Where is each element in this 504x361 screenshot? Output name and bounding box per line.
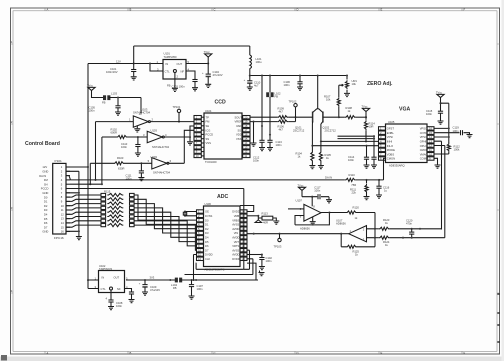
ferrite bead L103 <box>103 95 106 100</box>
U107b feedback with R125 <box>341 234 346 247</box>
svg-text:OPHI: OPHI <box>420 140 427 144</box>
U107a feedback loop <box>295 213 329 225</box>
svg-text:12: 12 <box>244 150 247 154</box>
svg-text:100n/16V: 100n/16V <box>106 70 118 74</box>
svg-text:16: 16 <box>61 230 64 234</box>
svg-text:600R: 600R <box>111 131 117 135</box>
svg-text:PCCD: PCCD <box>206 133 214 137</box>
svg-text:TVcc: TVcc <box>87 84 94 88</box>
svg-text:VREF: VREF <box>235 120 243 124</box>
svg-text:100n: 100n <box>284 83 290 87</box>
ground FPC16 <box>76 237 82 240</box>
svg-text:GND: GND <box>42 170 48 174</box>
svg-text:TAR5S050: TAR5S050 <box>164 55 177 59</box>
svg-text:SN74AHCT04: SN74AHCT04 <box>153 170 171 174</box>
OE jumper <box>185 212 197 216</box>
svg-text:SOUT: SOUT <box>235 115 243 119</box>
svg-text:12: 12 <box>198 257 201 261</box>
ferrite bead L104 <box>175 278 178 283</box>
right border dark marks <box>497 294 500 342</box>
svg-text:+: + <box>244 79 246 82</box>
svg-text:17: 17 <box>242 240 245 244</box>
svg-text:R120: R120 <box>353 206 360 210</box>
frame column ticks and letters <box>44 8 46 354</box>
wire U103b out to CCD SH <box>164 126 194 137</box>
svg-text:13: 13 <box>244 145 247 149</box>
svg-text:22: 22 <box>242 218 245 222</box>
svg-text:13: 13 <box>429 139 432 143</box>
emitter Q101 down <box>311 124 313 151</box>
svg-text:DA IN: DA IN <box>39 174 46 178</box>
svg-text:VPSO: VPSO <box>420 127 427 131</box>
resistor R124 <box>379 236 390 239</box>
svg-text:+: + <box>202 72 204 75</box>
wire VGA supply to VPSO pins <box>441 103 449 143</box>
svg-text:14: 14 <box>61 221 64 225</box>
capacitor C120 <box>411 229 413 232</box>
svg-text:5: 5 <box>61 182 63 186</box>
flag at VRBS <box>255 220 261 223</box>
U107a non-inverting input stub <box>288 208 304 210</box>
frame row ticks and numbers <box>11 43 500 45</box>
capacitor C110b <box>137 136 139 138</box>
svg-text:21: 21 <box>242 223 245 227</box>
svg-text:SS: SS <box>206 137 210 141</box>
svg-text:VGA: VGA <box>399 107 410 113</box>
ferrite bead L102 <box>269 76 271 93</box>
svg-text:10: 10 <box>429 152 432 156</box>
svg-text:13: 13 <box>61 217 64 221</box>
svg-text:75R: 75R <box>351 183 356 187</box>
connector P101 body <box>53 163 66 234</box>
resistor R115-4 <box>66 208 101 210</box>
svg-text:DVSS: DVSS <box>205 214 213 218</box>
svg-text:VAD: VAD <box>236 124 241 128</box>
svg-text:A: A <box>47 351 49 355</box>
bus wire D3 <box>134 208 196 233</box>
svg-text:D5: D5 <box>205 240 209 244</box>
svg-text:15: 15 <box>61 225 64 229</box>
svg-text:TAR5S033: TAR5S033 <box>99 267 112 271</box>
resistor R103 <box>90 162 113 164</box>
inductor L101 <box>250 55 252 69</box>
ADC supply loop top <box>241 206 254 212</box>
svg-text:19: 19 <box>242 231 245 235</box>
svg-text:100n: 100n <box>276 143 282 147</box>
svg-text:23: 23 <box>242 214 245 218</box>
svg-text:D: D <box>297 351 299 355</box>
svg-text:L103: L103 <box>111 92 117 96</box>
svg-text:FPC16: FPC16 <box>54 236 64 240</box>
U107b output to video line <box>341 233 349 235</box>
ground near op2 <box>259 271 261 273</box>
svg-text:100n: 100n <box>116 304 122 308</box>
capacitor C119 <box>434 132 460 134</box>
bus wire D4 <box>134 212 196 237</box>
resistor R115-3 <box>66 204 101 206</box>
svg-text:18: 18 <box>244 124 247 128</box>
resistor R113 network <box>247 215 258 217</box>
svg-text:C: C <box>214 8 216 12</box>
svg-text:PCCD: PCCD <box>41 187 49 191</box>
svg-text:VSS: VSS <box>236 137 242 141</box>
CCD U104 body <box>204 113 242 159</box>
svg-text:C: C <box>214 351 216 355</box>
UR1 wiper <box>339 84 344 86</box>
svg-text:100n: 100n <box>348 158 354 162</box>
power flag TVcc logic <box>88 87 95 90</box>
resistor R123 <box>379 227 390 230</box>
wire 12V vertical trunk <box>87 64 89 281</box>
connector P101 pins <box>66 166 70 168</box>
3V3 rail <box>126 279 175 281</box>
svg-text:24: 24 <box>242 210 245 214</box>
resistor R115-1 <box>66 195 101 197</box>
svg-text:18: 18 <box>242 235 245 239</box>
svg-text:SH: SH <box>44 182 48 186</box>
svg-text:TP103: TP103 <box>274 245 282 249</box>
svg-text:SS: SS <box>238 128 242 132</box>
svg-text:3: 3 <box>11 206 13 210</box>
capacitor C115 <box>438 110 443 112</box>
svg-text:CMOP: CMOP <box>420 148 428 152</box>
svg-text:15: 15 <box>242 248 245 252</box>
svg-text:B: B <box>130 351 132 355</box>
svg-text:DVDD: DVDD <box>232 210 240 214</box>
svg-text:AVDD: AVDD <box>232 253 239 257</box>
svg-text:SN74AHCT04: SN74AHCT04 <box>133 111 151 115</box>
wire VIN video line <box>247 233 341 235</box>
svg-text:15: 15 <box>429 131 432 135</box>
svg-text:100n: 100n <box>314 189 320 193</box>
svg-text:MODE: MODE <box>387 148 395 152</box>
svg-text:TVcc: TVcc <box>204 50 211 54</box>
resistor R115-8 <box>66 225 101 227</box>
svg-text:100u: 100u <box>256 60 262 64</box>
test point TP103 <box>279 234 281 239</box>
svg-text:100n: 100n <box>89 109 95 113</box>
svg-text:12V: 12V <box>116 59 121 63</box>
regulator U101 body <box>163 60 186 80</box>
U107a ground pin <box>312 217 314 221</box>
wire 12V top rail to L101 <box>134 46 250 64</box>
svg-text:FB: FB <box>167 84 171 88</box>
wire INLO line <box>312 145 378 147</box>
svg-text:OE: OE <box>205 210 209 214</box>
svg-text:12: 12 <box>61 212 64 216</box>
CCD U104 pins <box>194 116 201 119</box>
svg-text:4: 4 <box>61 178 63 182</box>
VGA U105 body <box>386 124 428 163</box>
svg-text:DVDD: DVDD <box>205 253 213 257</box>
svg-text:OPLO: OPLO <box>420 144 427 148</box>
svg-text:47u/10V: 47u/10V <box>150 288 160 292</box>
svg-text:OUT: OUT <box>177 62 183 66</box>
svg-text:FM: FM <box>44 178 49 182</box>
svg-text:D4: D4 <box>205 236 209 240</box>
svg-text:7: 7 <box>61 191 63 195</box>
resistor R109 <box>277 116 288 119</box>
svg-text:AVDD: AVDD <box>232 227 239 231</box>
svg-text:NF: NF <box>117 287 121 291</box>
svg-text:VDD: VDD <box>236 133 242 137</box>
svg-text:20: 20 <box>244 115 247 119</box>
svg-text:13: 13 <box>242 257 245 261</box>
svg-text:12: 12 <box>429 144 432 148</box>
U101 NF cap <box>186 71 195 79</box>
svg-text:TCD1320: TCD1320 <box>205 160 217 164</box>
svg-text:C103 100n: C103 100n <box>172 85 186 89</box>
svg-text:CTL: CTL <box>101 287 107 291</box>
svg-text:U106: U106 <box>205 202 212 206</box>
bus wire D7 <box>134 225 196 250</box>
wire DA IN <box>66 176 345 180</box>
test point TP101 <box>177 109 180 112</box>
svg-text:D1: D1 <box>44 200 48 204</box>
svg-text:OUT: OUT <box>114 275 120 279</box>
svg-text:D7: D7 <box>44 225 48 229</box>
svg-text:FB: FB <box>275 95 279 99</box>
resistor R105 <box>319 151 322 162</box>
svg-text:TP: TP <box>206 115 210 119</box>
svg-text:INHI: INHI <box>387 140 393 144</box>
U102 NF cap <box>125 289 132 292</box>
wire P101 pin1 to 12V trunk <box>70 166 88 168</box>
capacitor C117 <box>318 194 320 199</box>
svg-text:NF: NF <box>181 70 185 74</box>
svg-text:100n: 100n <box>197 287 203 291</box>
analog 12V rail <box>250 69 347 76</box>
svg-text:47u/10V: 47u/10V <box>213 73 223 77</box>
svg-text:TVcc: TVcc <box>361 105 368 109</box>
svg-text:R113: R113 <box>262 211 269 215</box>
svg-text:OFST: OFST <box>387 127 395 131</box>
svg-text:10: 10 <box>61 204 64 208</box>
svg-text:11: 11 <box>244 154 247 158</box>
svg-text:CMGN: CMGN <box>387 157 395 161</box>
svg-text:11: 11 <box>61 208 64 212</box>
power flag TVcc at U107a <box>298 187 305 190</box>
svg-text:U103: U103 <box>151 129 158 133</box>
bus wire D2 <box>134 204 196 229</box>
svg-text:VDBS: VDBS <box>387 152 395 156</box>
svg-text:E: E <box>381 8 383 12</box>
U101 OUT wire <box>186 63 208 65</box>
svg-text:ADC: ADC <box>217 194 228 200</box>
wire line B <box>375 237 379 239</box>
ADC U106 body <box>204 206 241 267</box>
bus wire D6 <box>134 221 196 246</box>
svg-text:15: 15 <box>244 137 247 141</box>
svg-text:INLO: INLO <box>387 144 393 148</box>
ADC DVDD left to 3V3 <box>194 255 197 281</box>
svg-text:9: 9 <box>61 200 63 204</box>
svg-text:D0: D0 <box>205 218 209 222</box>
VREF decoupling to ground <box>253 122 255 143</box>
svg-text:630R: 630R <box>118 166 124 170</box>
power flag TVcc at U101 out <box>207 57 209 64</box>
wire VDD vertical <box>269 97 271 140</box>
transistor Q102 <box>322 112 324 123</box>
svg-text:GND: GND <box>42 191 48 195</box>
svg-text:19: 19 <box>244 120 247 124</box>
svg-text:FB: FB <box>102 101 106 105</box>
svg-text:FM: FM <box>206 120 211 124</box>
svg-text:U104: U104 <box>205 109 212 113</box>
svg-text:2: 2 <box>177 75 179 79</box>
svg-text:TP101: TP101 <box>173 105 181 109</box>
aux lines into VGA <box>338 136 375 157</box>
svg-text:FB: FB <box>173 286 177 290</box>
op-amp U107a <box>304 204 321 221</box>
bus wire D5 <box>134 217 196 242</box>
svg-text:6: 6 <box>61 187 63 191</box>
capacitor C112 <box>259 139 264 141</box>
resistor R115-6 <box>66 217 101 219</box>
capacitor C110 <box>249 76 251 81</box>
svg-text:U107: U107 <box>336 218 343 222</box>
svg-text:10: 10 <box>196 154 199 158</box>
svg-text:DA IN: DA IN <box>325 176 332 180</box>
svg-text:3V3: 3V3 <box>150 276 155 280</box>
inverter U103a input from FM <box>96 122 134 180</box>
svg-text:D2: D2 <box>44 204 48 208</box>
svg-text:D5: D5 <box>44 217 48 221</box>
svg-text:CTL: CTL <box>165 70 171 74</box>
svg-text:R103: R103 <box>117 156 124 160</box>
ground stub on SH bus <box>189 137 191 141</box>
svg-text:16: 16 <box>429 127 432 131</box>
svg-text:D6: D6 <box>205 244 209 248</box>
svg-text:100n: 100n <box>426 112 432 116</box>
svg-text:470n: 470n <box>406 222 412 226</box>
svg-text:1u: 1u <box>384 189 387 193</box>
svg-text:R115: R115 <box>104 190 111 194</box>
svg-text:22k: 22k <box>352 191 357 195</box>
svg-text:VIN: VIN <box>234 231 239 235</box>
resistor R120 <box>329 212 346 214</box>
resistor R112 <box>447 143 450 152</box>
svg-text:ENBL: ENBL <box>387 131 395 135</box>
resistor R108 <box>339 116 345 118</box>
U107a power pin <box>311 197 313 207</box>
op-amp U107b <box>349 226 367 242</box>
svg-text:AD8330ARQ: AD8330ARQ <box>389 164 405 168</box>
svg-text:10k: 10k <box>326 98 331 102</box>
svg-text:14: 14 <box>244 141 247 145</box>
svg-text:D0: D0 <box>44 195 48 199</box>
svg-text:D3: D3 <box>44 208 48 212</box>
ADC U106 pins <box>197 210 204 213</box>
svg-text:D2: D2 <box>205 227 209 231</box>
svg-text:IN: IN <box>102 275 105 279</box>
svg-text:16: 16 <box>244 133 247 137</box>
svg-text:AVSS: AVSS <box>232 223 239 227</box>
U101 CTL pin wire <box>150 64 163 72</box>
bus wire D0 <box>134 195 196 220</box>
U101 GND pin 2 <box>174 73 176 88</box>
svg-text:100n: 100n <box>253 159 259 163</box>
resistor R115-2 <box>66 199 101 201</box>
svg-text:8: 8 <box>313 205 315 209</box>
svg-text:E: E <box>381 351 383 355</box>
svg-text:SH: SH <box>206 124 210 128</box>
svg-text:16: 16 <box>242 244 245 248</box>
svg-text:6: 6 <box>170 159 172 163</box>
resistor R104 <box>311 151 314 162</box>
svg-text:U103: U103 <box>151 155 158 159</box>
svg-text:10R: 10R <box>369 125 374 129</box>
svg-text:20: 20 <box>242 227 245 231</box>
resistor R106 <box>277 120 288 123</box>
svg-text:U105: U105 <box>388 120 395 124</box>
wire PCCD to ADC CLK <box>70 189 244 270</box>
capacitor C111 <box>140 162 142 164</box>
svg-text:COMM: COMM <box>420 157 429 161</box>
svg-text:100k: 100k <box>454 148 460 152</box>
wire DA IN to VGA CMGN <box>379 158 386 180</box>
capacitor C102 <box>247 254 262 256</box>
svg-text:VRTS: VRTS <box>232 244 239 248</box>
svg-text:5: 5 <box>148 159 150 163</box>
svg-text:4u7: 4u7 <box>254 84 259 88</box>
svg-text:VPSI: VPSI <box>387 135 393 139</box>
svg-text:7: 7 <box>139 128 141 132</box>
capacitor C101 <box>133 64 135 70</box>
capacitor C106 <box>299 76 301 82</box>
svg-text:Control Board: Control Board <box>25 141 60 147</box>
resistor R115-7 <box>66 221 101 223</box>
svg-text:VPSO: VPSO <box>420 135 427 139</box>
svg-text:+: + <box>139 283 141 286</box>
svg-text:2SC2712: 2SC2712 <box>293 129 305 133</box>
wire VAD vertical from rail <box>261 76 263 141</box>
resistor R110 <box>345 178 356 181</box>
svg-text:4: 4 <box>106 297 108 301</box>
svg-text:TVcc: TVcc <box>436 91 443 95</box>
bus wire D1 <box>134 199 196 224</box>
svg-text:IN: IN <box>166 62 169 66</box>
svg-text:100n: 100n <box>121 145 127 149</box>
P101 ground bus <box>66 171 79 236</box>
svg-text:1: 1 <box>61 165 63 169</box>
svg-text:P101: P101 <box>55 159 63 163</box>
ADC right supply drops <box>244 250 250 269</box>
svg-text:VRBS: VRBS <box>232 218 240 222</box>
U102 input wires <box>88 280 99 289</box>
svg-text:ZERO Adj.: ZERO Adj. <box>367 81 393 87</box>
svg-text:40R: 40R <box>263 221 268 225</box>
svg-text:17: 17 <box>244 128 247 132</box>
capacitor C104 <box>207 64 209 74</box>
resistor R114 <box>365 117 367 120</box>
svg-text:8: 8 <box>61 195 63 199</box>
svg-text:D3: D3 <box>205 231 209 235</box>
svg-text:3: 3 <box>143 133 145 137</box>
svg-text:TP102: TP102 <box>289 99 297 103</box>
U107b input stubs <box>367 229 375 238</box>
svg-text:VSS: VSS <box>206 141 212 145</box>
svg-text:12V: 12V <box>42 165 47 169</box>
capacitor C107 <box>191 280 193 284</box>
regulator U102 body <box>99 271 125 293</box>
svg-text:VRT: VRT <box>234 240 240 244</box>
capacitor C109 <box>144 280 146 284</box>
svg-text:B: B <box>130 8 132 12</box>
wire line A <box>375 228 379 230</box>
capacitor C114 <box>365 145 367 147</box>
svg-text:4: 4 <box>11 289 13 293</box>
